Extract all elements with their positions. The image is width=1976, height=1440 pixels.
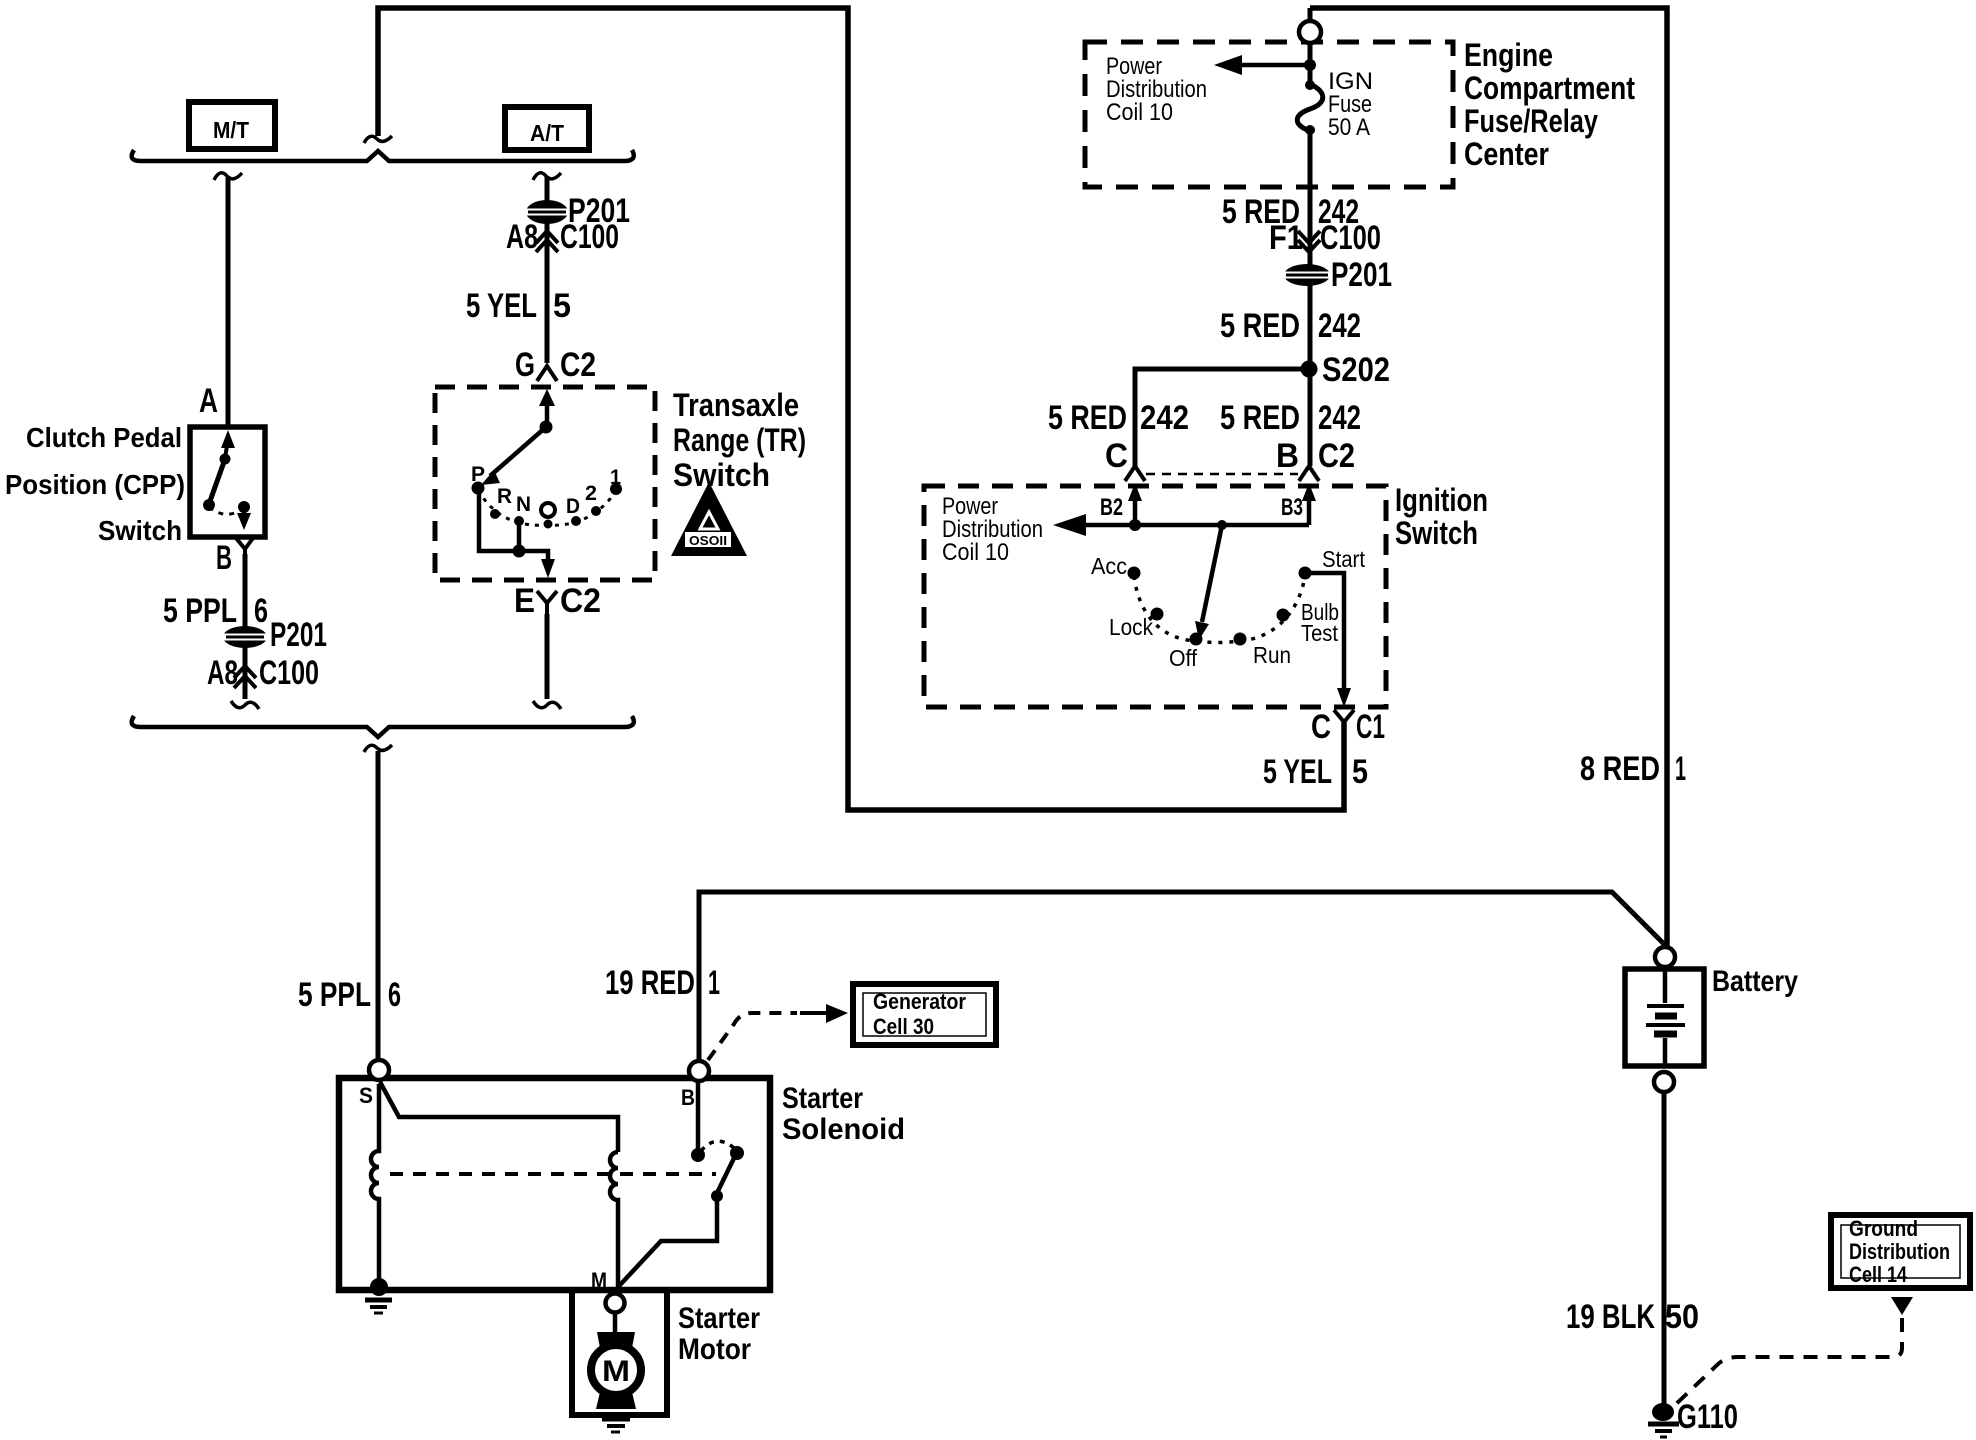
svg-text:Ignition: Ignition: [1395, 482, 1488, 518]
ground distribution cell 14 reference box: [1831, 1215, 1970, 1288]
connector P201 (right): [1284, 264, 1330, 286]
svg-text:1: 1: [1675, 750, 1686, 788]
svg-text:P201: P201: [1331, 256, 1392, 294]
svg-text:Cell 30: Cell 30: [873, 1014, 934, 1039]
generator cell 30 reference box: [853, 984, 996, 1045]
ignition position Bulb Test: [1277, 609, 1290, 622]
svg-text:P201: P201: [270, 616, 327, 654]
wire: CPP B down to bottom bracket: [243, 554, 248, 699]
connector F1 C100 chevrons: [1298, 231, 1320, 252]
A/T option box: [505, 107, 589, 150]
ignition feed rail with arrow to power distribution: [1084, 523, 1309, 528]
TR position D: [571, 516, 581, 526]
svg-text:5 PPL: 5 PPL: [298, 976, 371, 1014]
terminal circle at top of fuse feed: [1299, 21, 1321, 43]
wire: bottom feed from bracket to starter solenoid S: [376, 751, 381, 1060]
svg-text:E: E: [514, 582, 535, 620]
dashed wire to generator cell: [708, 1013, 797, 1060]
svg-text:Engine: Engine: [1464, 37, 1553, 73]
clutch pedal position switch box: [190, 427, 265, 537]
solenoid contact from B: [696, 1082, 701, 1150]
starter motor enclosure: [572, 1289, 667, 1415]
svg-text:D: D: [566, 495, 580, 518]
svg-text:5 RED: 5 RED: [1220, 399, 1300, 437]
svg-text:Switch: Switch: [1395, 515, 1478, 551]
M/T option box: [189, 102, 275, 149]
TR neutral ring indicator: [541, 503, 555, 517]
connector P201 (left): [223, 626, 267, 648]
svg-text:C: C: [1105, 437, 1128, 475]
connector A8 C100 (left) chevrons: [234, 666, 256, 688]
solenoid case ground symbol: [365, 1298, 392, 1303]
svg-text:242: 242: [1140, 399, 1189, 437]
svg-text:B2: B2: [1100, 494, 1123, 521]
svg-text:M/T: M/T: [213, 117, 249, 143]
svg-text:Switch: Switch: [673, 457, 770, 493]
wire: solenoid B feed from battery rail: [699, 892, 1665, 1060]
svg-text:G: G: [515, 346, 535, 384]
wire: Start contact to C1 exit: [1305, 573, 1344, 688]
wire: main loop from ignition C1 down, left along y=810, up x=848, along top y=8, down to bracket feed x=378: [378, 8, 1344, 810]
svg-text:Starter: Starter: [782, 1082, 863, 1115]
ignition position Off: [1190, 633, 1203, 646]
svg-text:Fuse/Relay: Fuse/Relay: [1464, 103, 1598, 139]
svg-text:Switch: Switch: [98, 515, 182, 546]
TR position P: [472, 482, 485, 495]
wire: M/T branch down to CPP switch: [226, 176, 231, 427]
wire: TR E down to bottom bracket: [545, 614, 550, 699]
ignition position Start: [1299, 567, 1312, 580]
svg-text:Start: Start: [1322, 546, 1366, 572]
wire: hook at end of CPP wire: [231, 701, 259, 709]
svg-text:B: B: [216, 539, 232, 577]
svg-text:Battery: Battery: [1712, 965, 1798, 998]
svg-text:242: 242: [1318, 399, 1361, 437]
connector B C2 fork: [1299, 466, 1319, 481]
IGN fuse 50A symbol: [1297, 84, 1323, 131]
solenoid hold-in coil (left): [371, 1084, 379, 1285]
svg-text:M: M: [602, 1355, 630, 1388]
svg-text:Solenoid: Solenoid: [782, 1113, 905, 1146]
svg-text:Motor: Motor: [678, 1333, 751, 1366]
svg-text:5: 5: [1352, 753, 1368, 791]
svg-text:F1: F1: [1269, 219, 1303, 257]
svg-text:50: 50: [1665, 1298, 1699, 1336]
svg-text:Generator: Generator: [873, 989, 966, 1014]
connector C fork: [1125, 466, 1145, 481]
TR position 1: [610, 483, 622, 495]
svg-text:C2: C2: [1318, 437, 1355, 475]
wire: hook below bottom bracket: [364, 745, 392, 752]
solenoid contact dashed throw arc: [701, 1141, 734, 1151]
ground distribution pointer triangle: [1891, 1297, 1913, 1315]
svg-text:C100: C100: [259, 654, 319, 692]
svg-text:5 YEL: 5 YEL: [466, 287, 537, 325]
svg-text:Starter: Starter: [678, 1302, 760, 1335]
solenoid plunger dashed link: [390, 1172, 716, 1176]
wire: feed through fuse down to ignition switch: [1308, 8, 1313, 466]
svg-text:19 BLK: 19 BLK: [1566, 1298, 1655, 1336]
ground G110 symbol: [1652, 1403, 1674, 1421]
svg-text:A8: A8: [506, 218, 538, 256]
node B fork below CPP: [236, 538, 253, 554]
svg-text:C2: C2: [560, 582, 601, 620]
TR wire from P down and to exit: [479, 490, 548, 559]
svg-text:B3: B3: [1281, 494, 1303, 521]
svg-text:Clutch Pedal: Clutch Pedal: [26, 422, 182, 453]
connector G C2 fork: [537, 366, 557, 381]
wire: S202 branch to ignition C terminal: [1135, 369, 1309, 466]
TR switch entry arrow up: [539, 389, 555, 406]
ignition position Acc: [1128, 567, 1141, 580]
svg-text:6: 6: [254, 592, 268, 630]
svg-text:1: 1: [708, 964, 720, 1002]
svg-text:Test: Test: [1301, 620, 1339, 646]
svg-text:Range (TR): Range (TR): [673, 422, 806, 458]
ignition position Lock: [1151, 608, 1164, 621]
ignition switch dashed box: [924, 486, 1386, 707]
CPP switch contact: entry arrow up: [221, 430, 235, 448]
svg-text:Coil 10: Coil 10: [942, 539, 1009, 566]
svg-text:C100: C100: [560, 218, 619, 256]
ignition key arrow to Off: [1202, 525, 1222, 622]
wire: A/T branch from bracket down to TR switch: [545, 176, 550, 363]
svg-text:Transaxle: Transaxle: [673, 387, 799, 423]
splice S202: [1301, 361, 1318, 378]
svg-text:M: M: [591, 1268, 607, 1293]
svg-text:G110: G110: [1677, 1398, 1738, 1436]
svg-text:B: B: [1276, 437, 1299, 475]
solenoid pull-in coil feed: [380, 1082, 618, 1152]
svg-text:5 YEL: 5 YEL: [1263, 753, 1332, 791]
warning triangle emblem: [671, 482, 747, 556]
connector P201 (A/T): [526, 200, 568, 224]
svg-text:2: 2: [585, 482, 597, 505]
terminal S circle: [369, 1060, 389, 1080]
CPP switch arm: [209, 459, 225, 504]
svg-text:19 RED: 19 RED: [605, 964, 695, 1002]
svg-text:OSOII: OSOII: [689, 533, 727, 548]
svg-text:A/T: A/T: [530, 120, 564, 146]
terminal B3 arrow: [1302, 483, 1316, 501]
svg-text:Position (CPP): Position (CPP): [5, 469, 185, 500]
wire: battery positive feed along top to battery: [1310, 8, 1667, 947]
svg-text:S: S: [359, 1083, 373, 1108]
svg-text:5: 5: [553, 287, 571, 325]
TR dashed range arc: [478, 490, 616, 525]
svg-text:Ground: Ground: [1849, 1216, 1918, 1241]
svg-text:A: A: [199, 382, 218, 420]
connector C C1 fork: [1334, 710, 1354, 722]
svg-text:R: R: [497, 485, 512, 508]
svg-text:Distribution: Distribution: [1849, 1239, 1950, 1264]
wire: hook at end of feed above top bracket: [364, 136, 392, 143]
svg-text:242: 242: [1318, 307, 1361, 345]
svg-text:C1: C1: [1356, 708, 1385, 746]
svg-text:Cell 14: Cell 14: [1849, 1262, 1908, 1287]
battery top terminal circle: [1655, 947, 1675, 967]
svg-text:6: 6: [388, 976, 401, 1014]
TR switch wiper arm arrow to P: [490, 427, 546, 476]
svg-text:C2: C2: [560, 346, 596, 384]
TR position 2: [591, 506, 601, 516]
ground dot at solenoid case: [370, 1278, 388, 1296]
svg-text:Center: Center: [1464, 136, 1549, 172]
svg-text:Off: Off: [1169, 645, 1198, 671]
svg-text:C100: C100: [1320, 219, 1381, 257]
terminal B2 arrow: [1128, 483, 1142, 501]
wire: top bracket (M/T + A/T bus): [132, 150, 634, 161]
svg-text:Acc: Acc: [1091, 553, 1127, 579]
svg-text:N: N: [516, 493, 531, 516]
connector E C2 fork: [537, 591, 557, 614]
engine compartment fuse/relay center dashed box: [1085, 42, 1453, 187]
wire: hook at end of TR wire: [533, 701, 561, 709]
TR position N: [514, 516, 524, 526]
svg-text:Coil 10: Coil 10: [1106, 99, 1173, 126]
svg-text:50 A: 50 A: [1328, 114, 1370, 141]
terminal B circle: [689, 1061, 709, 1081]
CPP switch exit arrow down: [242, 507, 246, 513]
svg-text:Compartment: Compartment: [1464, 70, 1635, 106]
starter motor symbol: [597, 1332, 635, 1348]
wire: bottom bracket (M/T + A/T rejoin bus): [132, 716, 634, 737]
transaxle range switch dashed box: [435, 387, 655, 580]
TR position R: [490, 509, 500, 519]
svg-text:A8: A8: [207, 654, 238, 692]
wire: hook at top of M/T branch: [214, 173, 242, 180]
dashed wire to G110: [1674, 1318, 1902, 1406]
wire: hook at top of A/T branch: [533, 173, 561, 180]
wire: battery negative to G110: [1662, 1092, 1667, 1404]
arrow to power distribution (engine box): [1238, 63, 1310, 68]
svg-text:P: P: [471, 463, 485, 486]
solenoid movable contact arm: [718, 1156, 735, 1191]
svg-text:5 PPL: 5 PPL: [163, 592, 237, 630]
connector A8 C100 (A/T) chevrons: [536, 231, 558, 252]
svg-text:Lock: Lock: [1109, 614, 1153, 640]
starter motor ground symbol: [602, 1417, 630, 1422]
TR exit arrow down: [541, 559, 555, 578]
svg-text:5 RED: 5 RED: [1048, 399, 1127, 437]
solenoid pull-in coil (right): [610, 1152, 618, 1287]
svg-text:8 RED: 8 RED: [1580, 750, 1660, 788]
thin dashed connector face line: [1146, 473, 1298, 476]
wire: M terminal to motor: [613, 1313, 618, 1334]
svg-text:B: B: [681, 1085, 695, 1110]
svg-text:S202: S202: [1322, 351, 1390, 389]
svg-text:Run: Run: [1253, 642, 1291, 668]
battery bottom terminal circle: [1654, 1072, 1674, 1092]
starter solenoid box: [339, 1078, 770, 1290]
battery cell plates: [1663, 969, 1668, 1003]
svg-text:5 RED: 5 RED: [1220, 307, 1300, 345]
svg-text:1: 1: [610, 466, 621, 489]
ignition position Run: [1234, 633, 1247, 646]
CPP switch dashed travel arc: [209, 507, 244, 514]
ignition rotary dashed arc: [1134, 576, 1305, 643]
battery box: [1625, 969, 1704, 1066]
svg-text:C: C: [1311, 708, 1331, 746]
